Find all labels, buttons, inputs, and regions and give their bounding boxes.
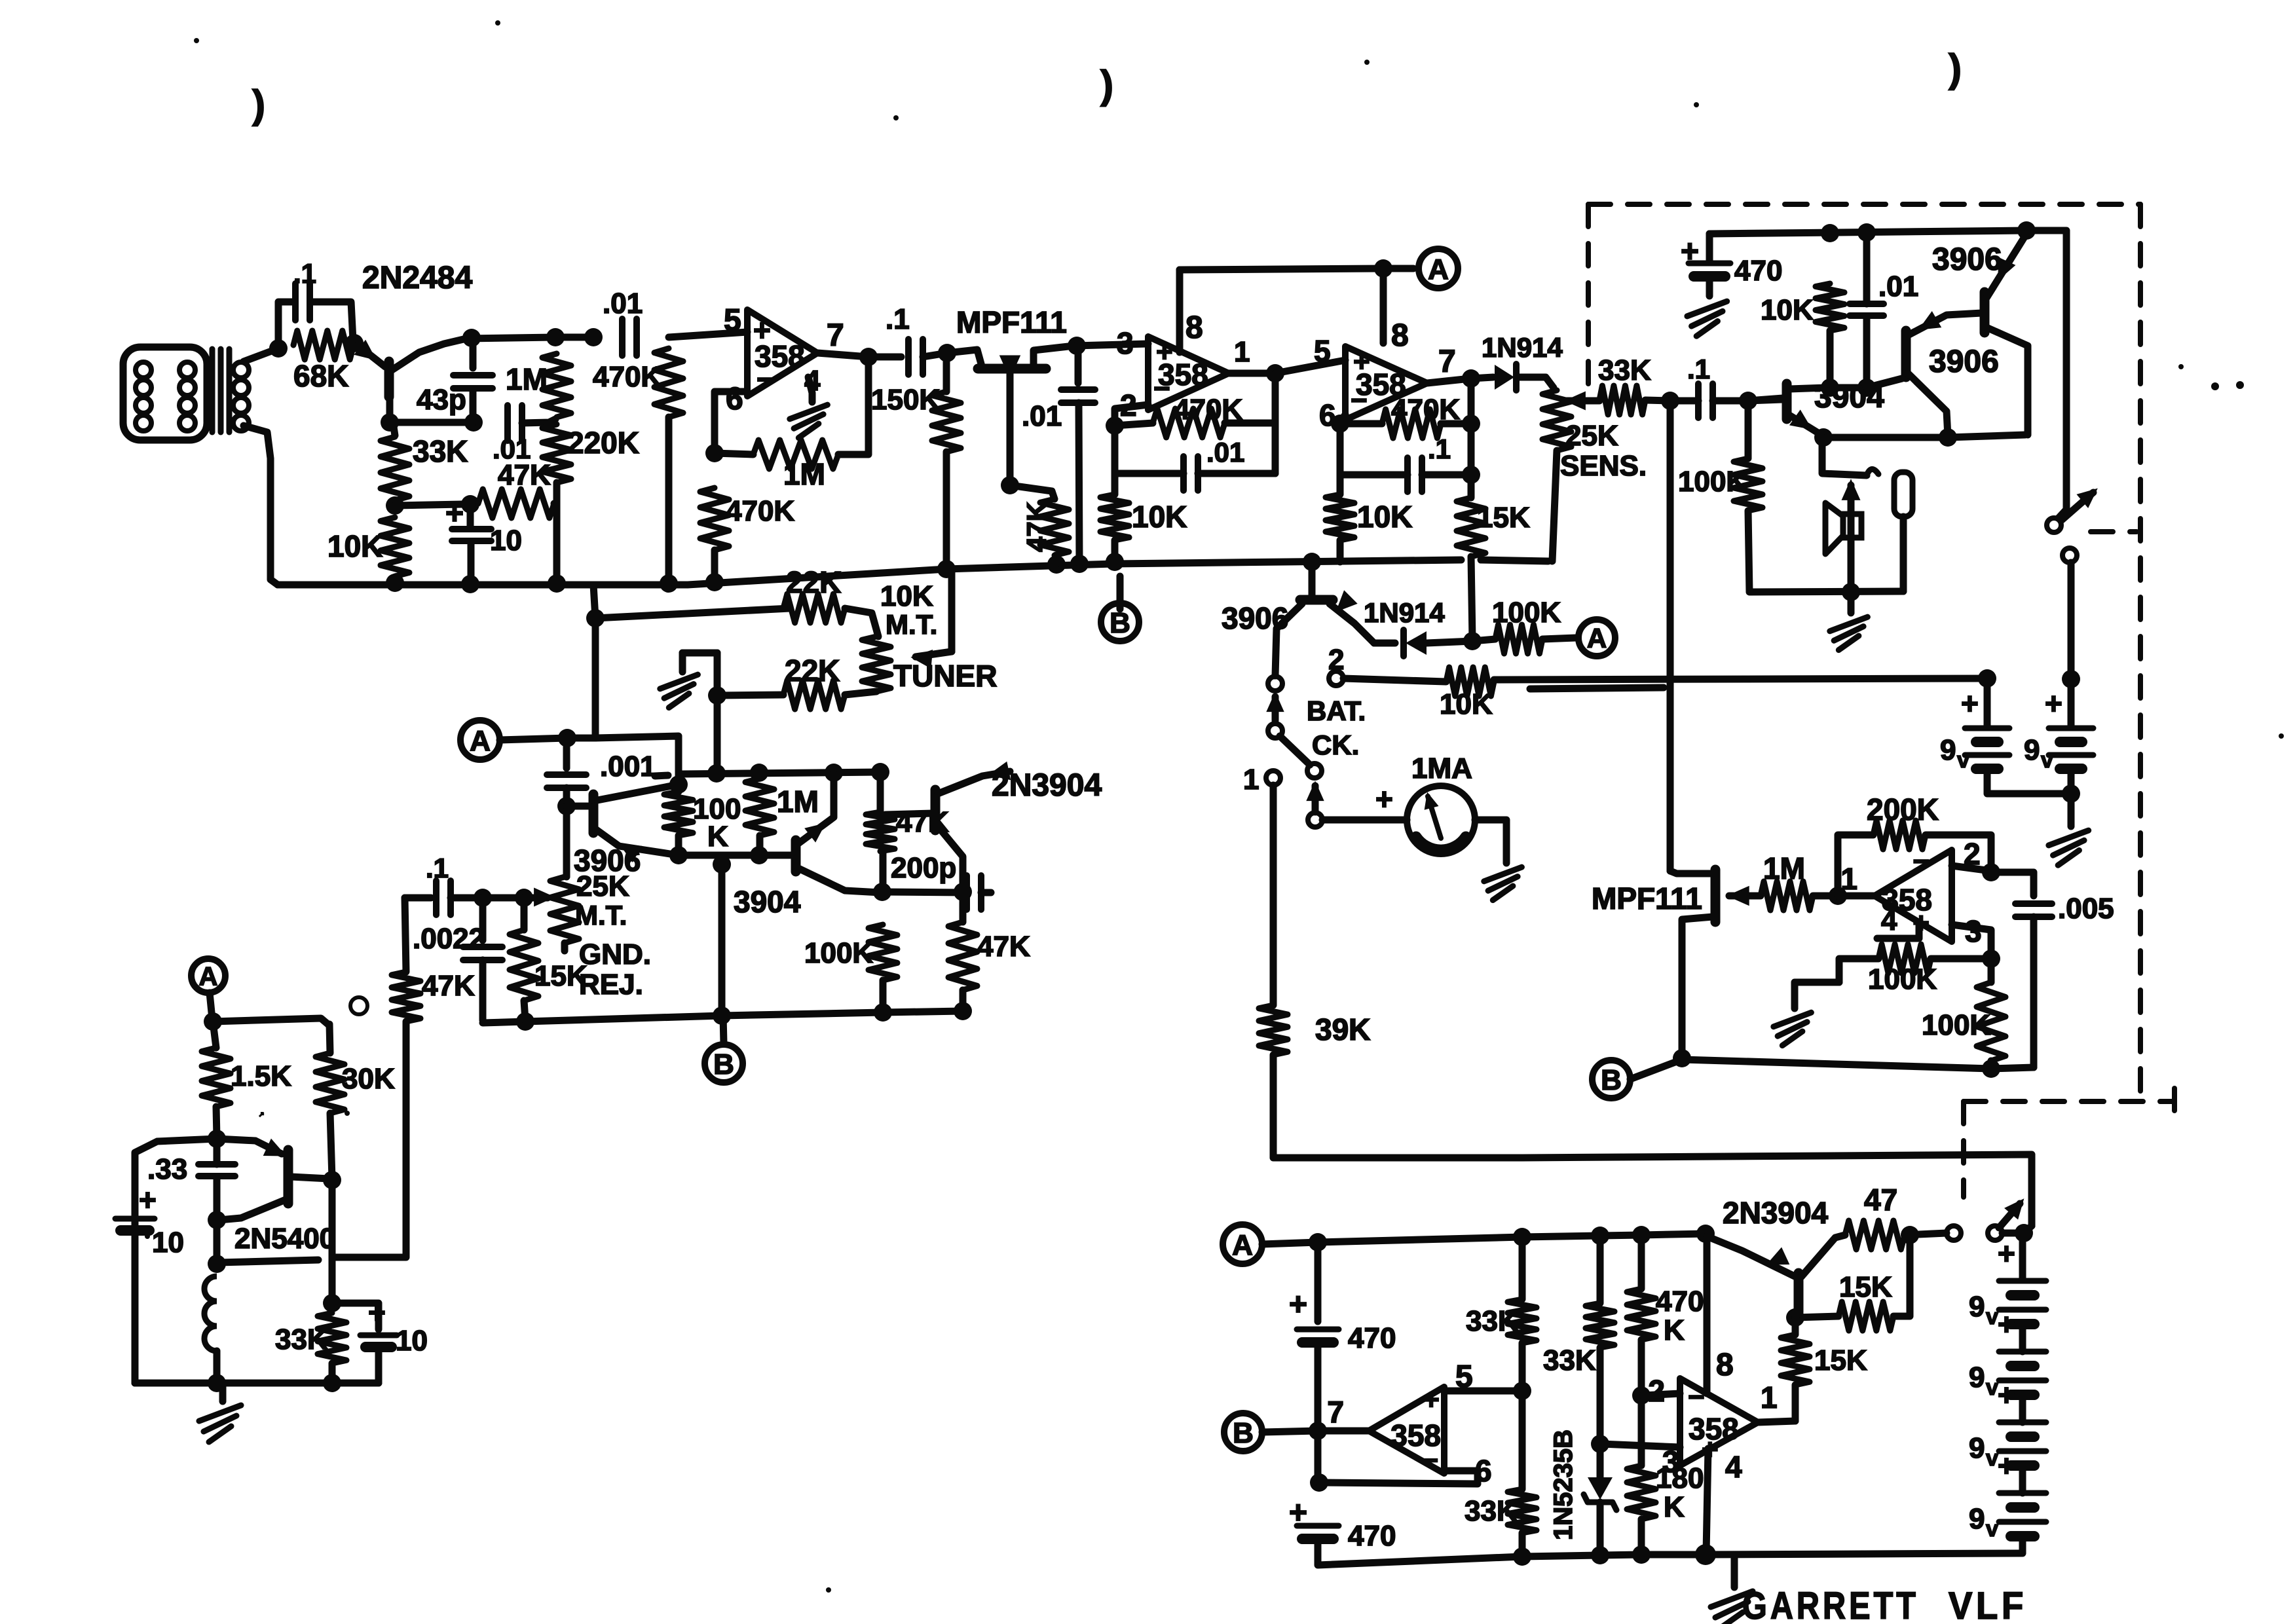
svg-text:1M: 1M [777,784,819,819]
svg-text:22K: 22K [785,654,840,688]
svg-text:1N914: 1N914 [1364,597,1445,628]
svg-text:2N2484: 2N2484 [362,261,472,295]
svg-text:B: B [1601,1064,1622,1096]
svg-text:9: 9 [1969,1432,1985,1464]
svg-text:4: 4 [1881,904,1897,936]
svg-text:7: 7 [827,318,844,353]
svg-text:25K: 25K [1565,420,1618,452]
svg-text:GARRETT: GARRETT [1742,1585,1919,1624]
svg-text:43p: 43p [417,384,466,416]
svg-text:.1: .1 [886,303,910,335]
svg-text:1N914: 1N914 [1482,332,1563,363]
svg-text:+: + [1423,1384,1440,1416]
svg-text:3906: 3906 [1222,601,1288,635]
svg-text:+: + [1961,686,1979,720]
svg-text:10K: 10K [1132,500,1187,534]
svg-text:200K: 200K [1867,792,1939,826]
svg-text:4: 4 [1725,1450,1742,1484]
svg-text:33K: 33K [275,1323,328,1356]
svg-text:470: 470 [1734,255,1782,287]
svg-text:+: + [1998,1236,2015,1270]
svg-text:−: − [1422,1445,1438,1475]
svg-text:47K: 47K [1021,502,1052,552]
svg-text:+: + [1998,1307,2015,1341]
svg-text:1: 1 [1761,1380,1778,1414]
svg-text:10K: 10K [1761,294,1814,326]
svg-text:470K: 470K [593,361,662,393]
svg-text:.01: .01 [1878,270,1918,303]
svg-text:v: v [1986,1517,1998,1541]
svg-text:3904: 3904 [1814,380,1884,415]
svg-text:15K: 15K [1839,1271,1892,1303]
svg-text:MPF111: MPF111 [956,305,1067,339]
svg-text:1: 1 [1243,764,1259,796]
svg-text:6: 6 [726,382,743,416]
svg-text:A: A [1232,1229,1253,1261]
svg-text:7: 7 [1438,344,1456,379]
svg-text:33K: 33K [1598,354,1651,386]
svg-text:200p: 200p [891,852,956,884]
svg-text:15K: 15K [534,960,588,992]
svg-text:1M: 1M [783,457,825,491]
svg-text:TUNER: TUNER [893,659,997,693]
svg-text:v: v [2041,748,2053,773]
svg-text:15K: 15K [1814,1344,1867,1376]
svg-text:1MA: 1MA [1411,752,1472,784]
svg-text:8: 8 [1716,1348,1734,1382]
svg-text:): ) [1949,46,1962,90]
svg-text:33K: 33K [1543,1344,1596,1376]
svg-text:470K: 470K [1391,394,1460,426]
svg-text:v: v [1957,748,1969,773]
svg-text:10K: 10K [1440,688,1493,720]
svg-text:100K: 100K [1922,1009,1990,1041]
svg-text:CK.: CK. [1312,729,1359,760]
svg-text:5: 5 [1314,334,1331,368]
svg-text:10K: 10K [1357,500,1412,534]
svg-text:v: v [1986,1304,1998,1329]
svg-text:SENS.: SENS. [1560,450,1647,482]
svg-text:3906: 3906 [1929,344,1999,379]
svg-text:.1: .1 [426,853,449,883]
svg-text:9: 9 [1940,734,1956,766]
svg-text:K: K [1664,1314,1685,1346]
svg-text:30K: 30K [342,1063,395,1095]
svg-text:.33: .33 [147,1153,187,1185]
svg-text:47: 47 [1864,1183,1897,1217]
svg-text:A: A [470,725,491,757]
svg-text:M.T.: M.T. [886,609,937,640]
svg-text:+: + [1375,782,1393,816]
svg-text:v: v [1986,1375,1998,1400]
svg-text:+: + [368,1295,386,1329]
svg-text:B: B [1233,1417,1254,1449]
svg-text:470: 470 [1656,1285,1704,1318]
svg-text:3906: 3906 [1932,242,2002,277]
svg-text:470K: 470K [1174,394,1242,426]
svg-text:1M: 1M [1763,851,1805,885]
svg-text:+: + [1998,1378,2015,1412]
svg-text:+: + [139,1183,157,1217]
svg-text:9: 9 [1969,1503,1985,1535]
svg-text:+: + [2045,686,2062,720]
svg-text:.0022: .0022 [413,923,485,955]
svg-text:100K: 100K [1868,963,1937,995]
svg-text:47K: 47K [498,459,551,491]
svg-text:): ) [252,83,265,126]
svg-text:1: 1 [1840,862,1857,896]
svg-text:3904: 3904 [734,885,801,919]
svg-text:2N3904: 2N3904 [1723,1196,1829,1230]
svg-text:22K: 22K [786,565,841,599]
svg-text:33K: 33K [1466,1305,1519,1337]
svg-text:REJ.: REJ. [579,969,643,1001]
svg-text:.001: .001 [600,750,656,783]
svg-text:8: 8 [1391,318,1409,353]
svg-text:39K: 39K [1315,1012,1370,1046]
svg-text:10: 10 [152,1227,184,1259]
svg-text:470: 470 [1348,1520,1396,1552]
svg-text:68K: 68K [293,359,348,393]
svg-text:): ) [1100,63,1113,107]
svg-text:B: B [713,1048,734,1080]
svg-text:K: K [707,821,728,853]
svg-text:−: − [1351,384,1368,416]
svg-text:A: A [1587,623,1607,654]
svg-text:.1: .1 [1687,354,1710,384]
svg-text:10: 10 [490,525,522,557]
svg-text:+: + [1998,1449,2015,1483]
svg-text:.01: .01 [1022,400,1062,432]
svg-text:8: 8 [1185,310,1203,345]
svg-text:9: 9 [1969,1291,1985,1323]
svg-text:10: 10 [396,1325,428,1357]
svg-text:1M: 1M [506,362,548,396]
svg-text:470: 470 [1348,1322,1396,1354]
svg-text:B: B [1110,607,1130,639]
svg-text:.1: .1 [293,258,316,289]
svg-text:GND.: GND. [579,938,651,970]
svg-text:M.T.: M.T. [575,900,627,931]
svg-text:10K: 10K [880,580,933,612]
svg-text:A: A [199,962,218,991]
svg-text:9: 9 [1969,1361,1985,1393]
svg-text:1.5K: 1.5K [231,1060,291,1092]
svg-text:+: + [1681,234,1699,269]
svg-text:.01: .01 [603,287,643,320]
svg-text:2N3904: 2N3904 [992,768,1102,803]
svg-text:−: − [1688,1381,1705,1413]
svg-text:25K: 25K [576,870,629,902]
svg-text:7: 7 [1327,1395,1344,1429]
svg-text:.005: .005 [2058,893,2114,925]
svg-text:−: − [756,362,774,396]
svg-text:100K: 100K [1492,597,1561,629]
svg-text:100K: 100K [804,937,873,969]
svg-text:47K: 47K [422,970,475,1002]
svg-text:BAT.: BAT. [1307,695,1366,726]
svg-text:33K: 33K [1465,1495,1518,1527]
svg-text:.1: .1 [1428,434,1451,464]
svg-text:220K: 220K [567,426,639,460]
svg-text:470K: 470K [726,495,794,527]
svg-text:.01: .01 [1206,437,1244,468]
svg-text:9: 9 [2024,734,2040,766]
svg-text:VLF: VLF [1949,1585,2027,1624]
svg-text:v: v [1986,1446,1998,1471]
svg-text:100K: 100K [1678,466,1747,498]
svg-text:A: A [1428,253,1449,286]
svg-text:1N5235B: 1N5235B [1549,1430,1578,1540]
svg-text:↗: ↗ [259,1111,264,1118]
svg-text:+: + [1289,1287,1307,1322]
svg-text:47K: 47K [977,931,1030,963]
svg-text:10K: 10K [327,529,382,563]
svg-text:−: − [1153,373,1170,405]
svg-text:MPF111: MPF111 [1592,881,1702,915]
svg-text:K: K [1664,1491,1685,1523]
svg-text:150K: 150K [871,384,940,416]
svg-text:2N5400: 2N5400 [234,1223,335,1255]
svg-text:33K: 33K [413,434,468,468]
svg-text:1: 1 [1234,336,1250,368]
